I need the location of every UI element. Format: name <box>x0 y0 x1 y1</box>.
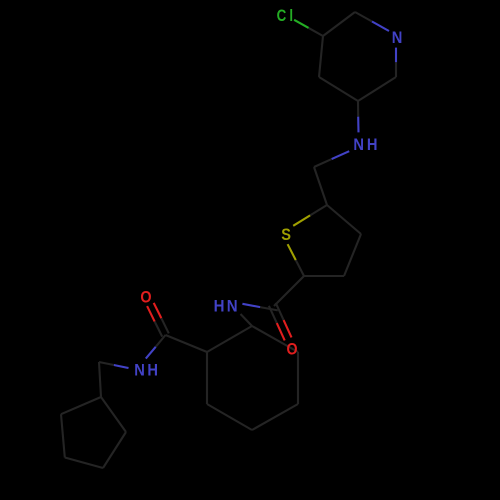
bond pyridine C5 to amine NH <box>357 101 360 132</box>
bond carbonyl C to amide N (HN) <box>242 304 277 311</box>
thiophene bond S-C2 <box>288 244 304 276</box>
benzene bond C6-C1 <box>206 352 208 404</box>
pyridine bond N1-C6 <box>395 48 397 77</box>
svg-text:l: l <box>289 7 293 26</box>
svg-text:S: S <box>281 226 291 244</box>
bond amide NH to methylene CH2 <box>99 362 129 368</box>
cyclopentane bond C4-C5 <box>61 414 65 457</box>
pyridine bond C6-C5 <box>358 77 396 101</box>
bond Cl to pyridine C3 <box>294 20 323 36</box>
svg-text:N: N <box>227 298 238 316</box>
svg-text:N: N <box>392 29 403 47</box>
thiophene bond C5-S <box>293 205 327 226</box>
svg-text:H: H <box>147 362 158 380</box>
thiophene bond C3-C2 <box>304 275 344 277</box>
pyridine bond C3-C2 <box>323 12 355 36</box>
svg-text:H: H <box>367 136 378 154</box>
svg-text:N: N <box>134 362 145 380</box>
amide C=O double bond (left) <box>147 303 169 337</box>
bond CH2 to thiophene C5 <box>314 167 327 205</box>
svg-text:N: N <box>353 136 364 154</box>
bond thiophene C2 to amide carbonyl C <box>274 276 304 306</box>
cyclopentane bond C5-C1 <box>61 397 101 414</box>
bond benzene C1 to carbonyl C <box>166 335 208 352</box>
cyclopentane bond C3-C4 <box>65 458 103 469</box>
cyclopentane bond C2-C3 <box>103 432 126 468</box>
pyridine bond C4-C3 <box>319 36 323 77</box>
thiophene bond C5-C4 <box>327 205 361 234</box>
thiophene bond C4-C3 <box>344 234 361 276</box>
amide C=O double bond (right) <box>269 303 292 341</box>
pyridine bond C2-N1 <box>355 12 389 31</box>
bond amine NH to methylene CH2 <box>314 151 349 167</box>
bond CH2 to cyclopentane C1 <box>99 362 101 397</box>
pyridine bond C5-C4 <box>319 77 358 101</box>
benzene bond C3-C4 <box>297 352 299 404</box>
benzene bond C1-C2 <box>207 326 252 352</box>
bond amide N to benzene C2 <box>241 314 253 326</box>
benzene bond C4-C5 <box>252 404 298 430</box>
svg-text:O: O <box>140 288 151 306</box>
cyclopentane bond C1-C2 <box>101 397 126 432</box>
bond carbonyl C to amide NH <box>146 335 166 359</box>
svg-text:O: O <box>287 340 298 358</box>
benzene bond C2-C3 <box>252 326 298 352</box>
svg-text:H: H <box>214 298 225 316</box>
benzene bond C5-C6 <box>207 404 252 430</box>
svg-text:C: C <box>277 7 287 26</box>
